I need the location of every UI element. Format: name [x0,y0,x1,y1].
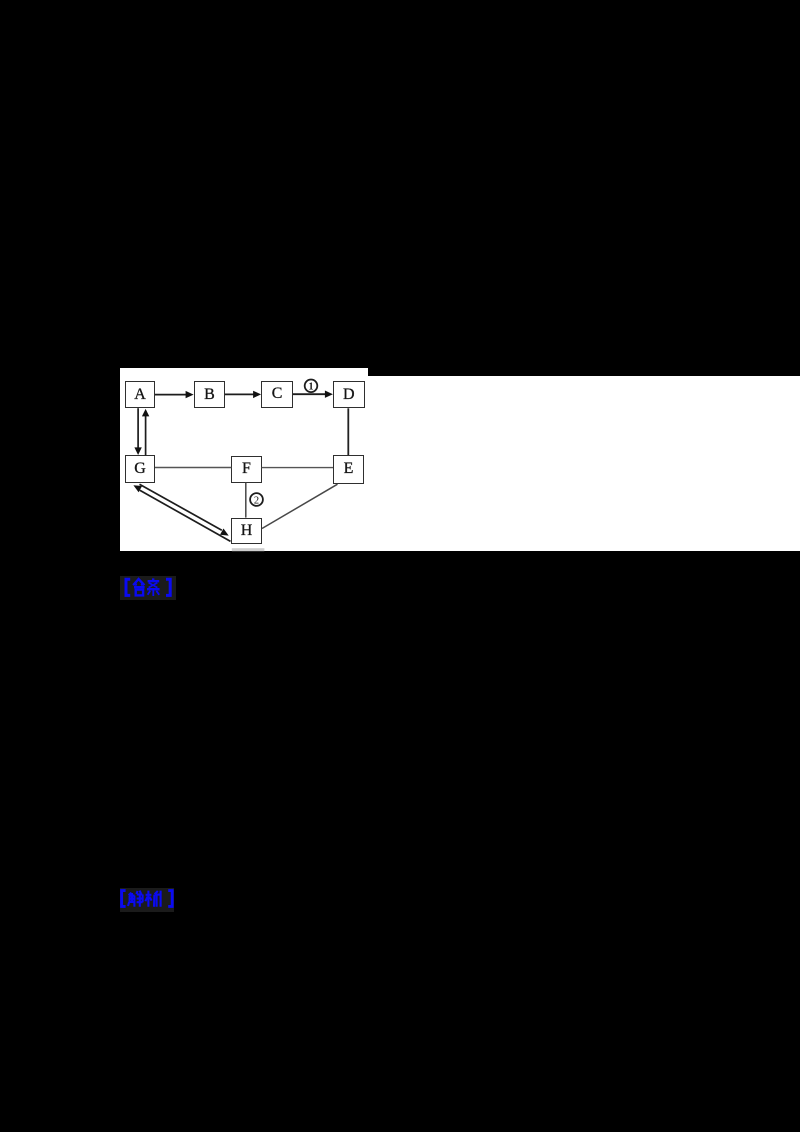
wire D to E [347,408,349,455]
circled 1 label [305,380,318,393]
white band left part [120,368,369,551]
wire G to H with arrowhead at H [140,484,229,535]
wire H to G with arrowhead at G [133,485,230,541]
arrow A to B [155,391,194,398]
arrow B to C [225,391,261,398]
box H [231,518,261,545]
wire F to H [245,483,247,518]
wire G to F [155,467,231,469]
svg-text:1: 1 [309,381,314,392]
circled 2 label [250,493,263,506]
label answer (blue) [120,576,176,600]
box F [231,456,261,483]
box B [194,381,225,408]
label analysis (blue) [120,888,174,912]
wire F to E [262,467,333,469]
wire E to H [262,484,338,528]
svg-text:2: 2 [254,495,259,506]
wire A down to G with down arrowhead [134,408,141,455]
wire G up to A with up arrowhead [142,409,149,456]
arrow C to D [293,391,333,398]
gray bar under H [232,548,265,551]
box A [125,381,155,408]
box D [333,381,365,409]
box G [125,455,155,483]
box E [333,455,364,483]
white band right part [368,376,800,551]
box C [261,381,293,408]
